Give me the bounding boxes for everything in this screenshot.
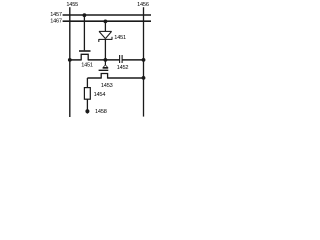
- wire: right vertical line from terminal 1456: [143, 7, 145, 116]
- wire: source wire of 1453 to resistor lead: [87, 77, 101, 79]
- wire: middle node, bump to capacitor: [88, 59, 120, 61]
- svg-text:1458: 1458: [95, 109, 107, 115]
- wire: source lead down to resistor 1454: [86, 78, 88, 88]
- transistor 1453 gate bar: [99, 69, 109, 71]
- wire: gate lead of transistor 1451: [83, 15, 85, 50]
- transistor 1453 gate triangle: [103, 65, 108, 68]
- svg-text:1457: 1457: [50, 12, 62, 18]
- transistor 1453 gate contact bar: [103, 67, 109, 69]
- wire: left vertical line from terminal 1455: [69, 7, 71, 117]
- junction dot drain of 1453 at right line: [142, 76, 146, 80]
- wire: middle node, capacitor to right line: [122, 59, 143, 61]
- junction dot on lower rail: [104, 20, 108, 24]
- transistor 1451 gate bar: [79, 50, 91, 52]
- wire: upper horizontal rail (net 1457): [63, 14, 151, 16]
- wire: anode lead of zener diode 1451: [104, 22, 106, 32]
- transistor 1453 channel bump: [101, 74, 107, 79]
- wire: gate lead of transistor 1453: [104, 60, 106, 66]
- wire: lower horizontal rail (net 1467): [63, 20, 151, 22]
- junction dot middle node at right line: [142, 58, 146, 62]
- wire: bottom lead of resistor 1454: [86, 99, 88, 113]
- wire: cathode lead of zener diode 1451: [104, 39, 106, 59]
- wire: drain wire of 1453 to right line: [107, 77, 143, 79]
- junction dot middle node at left line: [68, 58, 72, 62]
- svg-text:1452: 1452: [117, 65, 129, 71]
- junction dot on upper rail: [83, 13, 87, 17]
- wire: middle node, left line to bump: [70, 59, 82, 61]
- junction dot middle node at diode/gate column: [104, 58, 108, 62]
- svg-text:1467: 1467: [50, 19, 62, 25]
- capacitor 1452 plates: [120, 55, 123, 63]
- svg-text:1453: 1453: [101, 83, 113, 89]
- transistor 1451 channel bump: [81, 54, 88, 60]
- svg-text:1455: 1455: [66, 2, 78, 8]
- terminal node 1458 dot: [85, 109, 89, 113]
- svg-text:1454: 1454: [94, 92, 106, 98]
- resistor 1454 body: [84, 88, 90, 100]
- svg-text:1451: 1451: [81, 63, 93, 69]
- zener diode 1451: [99, 31, 112, 42]
- svg-text:1451: 1451: [114, 35, 126, 41]
